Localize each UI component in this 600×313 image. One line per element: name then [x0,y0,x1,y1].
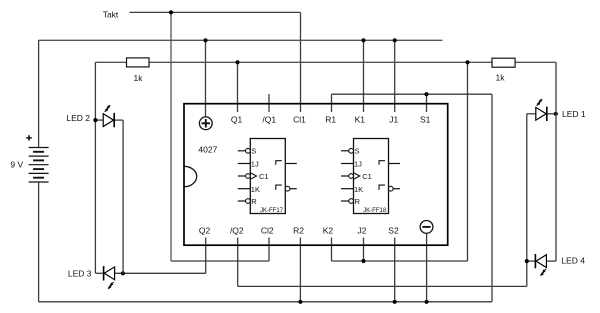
wire /Q2 vertical [237,238,239,287]
U1B pin 1J stub [341,163,354,165]
svg-text:1k: 1k [496,72,506,82]
battery B1 9V [29,148,49,183]
wire Cl1 vertical [300,12,302,112]
wire J1 vertical [394,40,396,112]
wire resistor rail middle [149,61,492,63]
U1A pin C1 stub [238,175,246,177]
junction R2 ground [298,300,302,304]
svg-text:9 V: 9 V [10,160,23,170]
svg-text:/Q1: /Q1 [262,114,276,124]
U1A pin 1J stub [238,163,251,165]
junction K2 feed [465,60,469,64]
svg-text:1k: 1k [134,73,144,83]
svg-text:1J: 1J [251,160,259,169]
U1A pin /Q bubble [285,186,290,191]
LED 3 [104,266,115,289]
U1A pin /Q stub [290,188,297,190]
svg-text:Q1: Q1 [231,114,243,124]
svg-text:1J: 1J [354,160,362,169]
U1A postponed output mark /Q [276,185,282,190]
U1A pin Q stub [285,163,297,165]
svg-text:JK-FF17: JK-FF17 [260,208,284,214]
wire LED2 right [114,119,123,121]
wire LED2 cathode vertical [122,120,124,273]
wire R1 vertical [331,94,333,112]
junction LED4 cathode [525,259,529,263]
junction S1 [424,92,428,96]
U1B pin R stub [341,200,349,202]
svg-text:1K: 1K [354,185,363,194]
junction Q1 [235,60,239,64]
wire LED3 left [95,272,103,274]
wire V- vertical [426,234,428,302]
wire Q1 vertical [237,62,239,112]
resistor R1 1k left [127,58,150,67]
U1B clock chevron [354,173,360,179]
U1B postponed output mark /Q [379,185,385,190]
U1A pin R stub [238,200,246,202]
svg-text:LED 2: LED 2 [66,113,90,123]
wire K2 feed vertical [467,62,469,261]
wire K2 vertical [331,238,333,262]
wire Cl2 vertical [268,238,270,262]
U1B postponed output mark Q [379,161,385,165]
wire LED1 anode vertical [526,114,528,287]
wire /Q2 to LED4 horizontal [238,285,527,287]
wire resistor rail right [515,61,556,63]
U1B pin C1 stub [341,175,349,177]
LED 4 [535,254,546,276]
svg-text:C1: C1 [362,172,372,181]
junction Takt [169,10,173,14]
U1B pin S bubble [349,148,354,153]
LED 1 [536,99,547,121]
U1B pin S stub [341,150,349,152]
wire LED2 left [95,119,103,121]
svg-text:LED 4: LED 4 [561,256,585,266]
IC notch [184,166,197,186]
wire resistor rail left [95,61,126,63]
junction K1 [361,38,365,42]
U1B pin /Q bubble [388,186,393,191]
svg-text:S2: S2 [388,226,399,236]
power V- symbol [420,221,433,234]
wire LED1 right [546,113,556,115]
wire battery plus vertical [38,40,40,147]
battery plus label [26,137,31,139]
wire V+ rail [39,39,443,41]
svg-text:K2: K2 [323,226,334,236]
LED 2 [103,105,114,128]
U1A pin R bubble [246,199,251,204]
wire LED3 right to Q2 [115,272,206,274]
U1B pin Q stub [389,163,401,165]
svg-text:Cl2: Cl2 [261,226,274,236]
svg-text:S1: S1 [420,114,431,124]
svg-text:/Q2: /Q2 [230,226,244,236]
svg-text:R2: R2 [293,226,304,236]
svg-text:4027: 4027 [198,144,217,154]
U1A postponed output mark Q [276,161,282,165]
svg-text:Takt: Takt [103,10,119,20]
wire S2 vertical [394,238,396,302]
U1B pin /Q stub [393,188,400,190]
svg-text:JK-FF18: JK-FF18 [363,208,387,214]
wire R2 pin vertical [299,238,301,302]
wire K1 vertical [363,40,365,112]
svg-text:Cl1: Cl1 [293,114,306,124]
U1B pin 1K stub [341,188,354,190]
wire LED4 left [527,260,537,262]
wire Takt vertical to Cl2 [170,12,172,261]
junction S2 ground [393,300,397,304]
wire K2 J2 horizontal [332,260,468,262]
svg-text:R: R [251,197,257,206]
op-amp U1 4027 IC box [184,104,448,246]
svg-text:S: S [355,147,360,156]
flip-flop U1A JK-FF17 box [250,139,285,214]
svg-text:C1: C1 [259,172,269,181]
svg-text:LED 3: LED 3 [68,268,92,278]
power V+ symbol [199,117,212,130]
wire Takt to Cl2 horizontal [171,260,269,262]
svg-text:J1: J1 [389,114,398,124]
wire Q2 vertical [205,238,207,274]
U1B pin C1 bubble [349,174,354,179]
wire right outer vertical [555,62,557,261]
junction V- ground [425,300,429,304]
wire V+ pin stub [205,40,207,117]
wire /Q1 stub [268,94,270,112]
svg-text:K1: K1 [355,114,366,124]
junction J1 [393,38,397,42]
svg-text:LED 1: LED 1 [562,109,586,119]
wire LED4 right [546,260,556,262]
U1A pin C1 bubble [246,174,251,179]
junction V+ pin [203,38,207,42]
svg-text:R1: R1 [325,114,336,124]
junction LED1 cathode [554,112,558,116]
U1B pin R bubble [349,199,354,204]
junction LED3 anode [121,271,125,275]
wire LED2 anode vertical [94,62,96,273]
wire ground bus [39,301,492,303]
wire Takt horizontal [130,11,301,13]
U1A pin 1K stub [238,188,251,190]
svg-text:1K: 1K [251,185,260,194]
junction J2 [361,259,365,263]
junction LED2 anode [93,118,97,122]
flip-flop U1B JK-FF18 box [354,139,389,214]
U1A pin S bubble [246,148,251,153]
wire battery minus vertical [38,182,40,302]
wire ground riser right [491,94,493,302]
U1A pin S stub [238,150,246,152]
wire R1 S1 net horizontal [332,93,493,95]
wire S1 vertical [426,94,428,112]
U1A clock chevron [250,173,256,179]
svg-text:Q2: Q2 [199,226,211,236]
svg-text:S: S [251,147,256,156]
wire LED1 left [527,113,536,115]
resistor R2 1k right [492,58,515,67]
wire J2 vertical [363,238,365,262]
svg-text:J2: J2 [358,226,367,236]
svg-text:R: R [355,197,361,206]
